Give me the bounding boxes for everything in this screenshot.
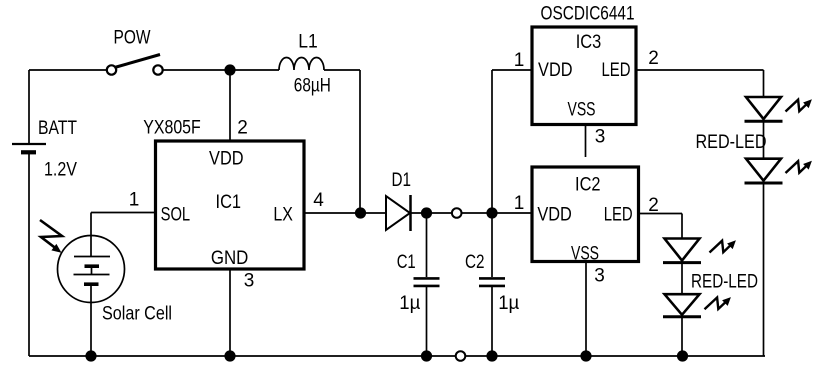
light arrow (D4) <box>710 240 736 252</box>
svg-text:3: 3 <box>595 127 606 148</box>
capacitor C1 <box>414 213 440 356</box>
svg-text:RED-LED: RED-LED <box>691 272 758 293</box>
open terminal on ground rail <box>456 351 466 361</box>
wire IC3 LED pin 2 to LED chain <box>636 70 764 97</box>
solar cell PV1 <box>58 236 125 303</box>
open terminal on VOUT wire <box>452 208 462 218</box>
junction diode/C1 node <box>421 207 432 218</box>
svg-text:D1: D1 <box>392 170 412 191</box>
svg-text:1µ: 1µ <box>399 293 420 314</box>
svg-text:LED: LED <box>602 60 631 81</box>
svg-text:BATT: BATT <box>38 118 77 139</box>
junction GND/ground rail <box>224 350 235 361</box>
junction node VDD top <box>224 64 235 75</box>
wire solar cell to ground rail <box>90 286 92 356</box>
wire D3 to ground rail <box>763 183 765 356</box>
svg-text:VDD: VDD <box>537 205 572 226</box>
wire IC3 VDD pin 1 <box>492 69 532 71</box>
wire D4 to D5 <box>681 263 683 295</box>
wire VDD pin 2 vertical <box>229 70 231 141</box>
solar cell light arrow <box>40 220 62 253</box>
svg-text:1: 1 <box>514 193 525 214</box>
inductor L1 <box>279 58 324 71</box>
svg-text:Solar Cell: Solar Cell <box>102 304 172 325</box>
junction IC2 VSS/ground rail <box>580 350 591 361</box>
junction LED chain/ground rail <box>677 350 688 361</box>
wire D2 to D3 <box>763 121 765 158</box>
svg-text:1µ: 1µ <box>498 293 519 314</box>
svg-text:1: 1 <box>129 190 140 211</box>
light arrow (D2) <box>786 99 812 111</box>
battery B1 plates <box>12 144 46 152</box>
svg-text:1.2V: 1.2V <box>44 160 77 181</box>
IC1 YX805F body <box>156 141 305 269</box>
wire IC3 VSS pin 3 <box>585 125 587 158</box>
svg-text:2: 2 <box>237 118 248 139</box>
svg-text:SOL: SOL <box>161 205 191 226</box>
battery wire down to ground rail <box>28 152 30 356</box>
svg-text:VSS: VSS <box>571 243 599 264</box>
wire inductor to corner <box>324 69 360 71</box>
svg-text:LED: LED <box>604 205 633 226</box>
svg-text:GND: GND <box>211 248 249 269</box>
battery BATT vertical wire top <box>28 70 30 144</box>
svg-text:C1: C1 <box>397 252 416 273</box>
wire IC2 VSS pin 3 to ground rail <box>585 262 587 357</box>
junction C2/IC2 VDD node <box>486 207 497 218</box>
IC3 body <box>532 27 636 125</box>
svg-text:3: 3 <box>244 271 255 292</box>
svg-text:4: 4 <box>313 190 324 211</box>
svg-text:1: 1 <box>514 50 525 71</box>
ground bottom rail <box>29 355 765 357</box>
light arrow (D5) <box>705 297 731 309</box>
svg-text:OSCDIC6441: OSCDIC6441 <box>541 4 635 25</box>
wire D5 to ground rail <box>681 317 683 356</box>
junction solar cell/ground <box>85 350 96 361</box>
svg-text:IC2: IC2 <box>575 175 601 196</box>
svg-text:IC1: IC1 <box>216 192 242 213</box>
svg-text:IC3: IC3 <box>576 32 602 53</box>
wire GND pin 3 to ground rail <box>229 269 231 356</box>
LED D3 (top chain second) <box>745 159 783 183</box>
LED D4 (bottom chain first) <box>663 239 701 263</box>
svg-text:2: 2 <box>648 48 659 69</box>
light arrow (D3) <box>786 161 812 173</box>
junction C2/ground rail <box>486 350 497 361</box>
svg-text:L1: L1 <box>298 32 318 53</box>
wire IC2 LED pin 2 to LED chain <box>639 214 683 239</box>
IC2 body <box>532 167 639 262</box>
svg-text:VSS: VSS <box>568 100 596 121</box>
svg-text:POW: POW <box>114 28 151 49</box>
wire SOL pin 1 <box>91 213 156 257</box>
svg-text:VDD: VDD <box>209 149 244 170</box>
wire diode to IC2 VDD <box>411 212 533 214</box>
svg-text:C2: C2 <box>465 252 485 273</box>
svg-text:68µH: 68µH <box>294 76 331 97</box>
svg-text:3: 3 <box>594 266 605 287</box>
svg-text:RED-LED: RED-LED <box>696 132 767 153</box>
svg-text:YX805F: YX805F <box>143 118 201 139</box>
wire L1 down to LX node <box>359 70 361 213</box>
junction LX/L1 node <box>355 207 366 218</box>
svg-text:VDD: VDD <box>538 60 573 81</box>
wire switch to inductor <box>163 69 280 71</box>
LED D5 (bottom chain second) <box>663 294 701 317</box>
wire top rail left (battery to switch) <box>29 69 107 71</box>
wire LX to diode <box>304 212 386 214</box>
diode D1 <box>386 195 411 231</box>
junction C1/ground rail <box>421 350 432 361</box>
svg-text:LX: LX <box>273 205 293 226</box>
LED D2 (top chain first) <box>745 97 783 121</box>
switch POW <box>107 55 163 75</box>
capacitor C2 <box>479 70 505 356</box>
